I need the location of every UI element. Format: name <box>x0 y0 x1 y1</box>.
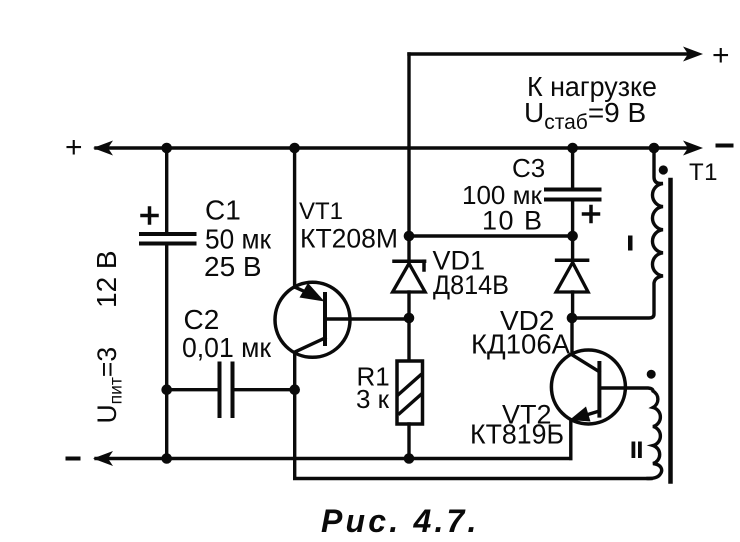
svg-text:Uстаб=9 В: Uстаб=9 В <box>524 97 646 134</box>
svg-text:Д814В: Д814В <box>433 270 509 300</box>
svg-text:КТ208М: КТ208М <box>300 224 398 254</box>
svg-text:+: + <box>65 131 83 164</box>
svg-text:C3: C3 <box>512 153 545 183</box>
svg-text:12 В: 12 В <box>91 250 122 308</box>
diode VD2 <box>571 236 574 258</box>
transformer T1 label <box>689 159 718 186</box>
junction C1 bottom rail <box>161 453 172 464</box>
wire bottom - rail <box>96 457 571 460</box>
capacitor C1 <box>165 148 168 233</box>
junction C2 right <box>289 384 300 395</box>
svg-text:Рис. 4.7.: Рис. 4.7. <box>321 503 480 539</box>
svg-text:50 мк: 50 мк <box>205 224 272 255</box>
winding II label <box>632 442 642 459</box>
transformer T1 core <box>668 180 673 482</box>
junction VD2 bottom <box>567 313 578 324</box>
wire main + rail <box>96 146 691 149</box>
transformer T1 winding I <box>572 148 663 318</box>
diode VD1 <box>407 236 410 259</box>
svg-text:КТ819Б: КТ819Б <box>470 419 564 450</box>
node К нагрузке label <box>524 71 657 134</box>
svg-text:3 к: 3 к <box>356 384 390 414</box>
junction C3 bottom <box>567 231 578 242</box>
junction C2 left <box>161 384 172 395</box>
junction VD1 bottom <box>404 313 415 324</box>
svg-text:C1: C1 <box>205 195 241 226</box>
svg-text:Т1: Т1 <box>689 159 718 186</box>
resistor R1 <box>407 318 410 361</box>
svg-text:10 В: 10 В <box>482 206 544 236</box>
node - output arrow <box>683 141 703 156</box>
svg-text:+: + <box>712 39 730 72</box>
svg-text:Uпит=3: Uпит=3 <box>92 347 126 424</box>
junction rail-C3 <box>567 143 578 154</box>
svg-text:25 В: 25 В <box>204 251 262 282</box>
winding II polarity dot <box>647 370 656 379</box>
svg-text:0,01 мк: 0,01 мк <box>182 332 272 363</box>
transformer T1 winding II <box>599 388 661 479</box>
capacitor C2 <box>167 388 218 391</box>
winding I label <box>628 236 633 251</box>
svg-text:VT1: VT1 <box>299 198 343 225</box>
wire C3 bottom link <box>409 234 573 237</box>
transistor VT2 <box>551 350 625 424</box>
node + input arrow <box>93 141 113 156</box>
wire VT1 collector to winding II <box>295 390 651 479</box>
junction VD1 top <box>404 231 415 242</box>
node Uпит label <box>91 250 126 423</box>
wire top output <box>409 52 690 55</box>
junction rail-T1 <box>649 143 660 154</box>
capacitor C3 <box>571 148 574 188</box>
junction rail-VT1 <box>289 143 300 154</box>
node - input arrow <box>93 451 113 466</box>
caption Рис. 4.7. <box>321 503 480 539</box>
winding I polarity dot <box>659 165 668 174</box>
junction rail-C1 <box>161 143 172 154</box>
junction R1 bottom rail <box>404 453 415 464</box>
svg-text:КД106А: КД106А <box>471 329 570 360</box>
node + output arrow <box>683 47 703 62</box>
transistor VT1 <box>275 282 350 357</box>
svg-text:C2: C2 <box>184 304 220 335</box>
